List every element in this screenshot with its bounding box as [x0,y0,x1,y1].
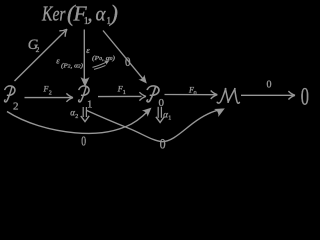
svg-text:(P2, α2): (P2, α2) [61,63,83,70]
svg-text:Ker: Ker [41,1,66,25]
svg-text:,: , [87,1,92,25]
svg-text:1: 1 [168,116,171,122]
svg-text:2: 2 [75,114,78,120]
svg-text:2: 2 [49,91,52,97]
svg-text:): ) [108,1,118,26]
svg-text:(P0, α0): (P0, α0) [92,55,115,62]
svg-text:1: 1 [123,90,126,96]
svg-text:2: 2 [13,100,19,112]
svg-text:0: 0 [81,134,86,149]
svg-text:0: 0 [125,55,131,69]
svg-text:α: α [96,1,107,25]
svg-text:2: 2 [36,45,40,54]
svg-text:0: 0 [160,136,166,152]
svg-text:0: 0 [194,91,197,97]
svg-text:1: 1 [87,98,93,110]
svg-text:0: 0 [267,79,272,90]
svg-text:0: 0 [301,83,309,110]
svg-text:F: F [43,85,49,94]
